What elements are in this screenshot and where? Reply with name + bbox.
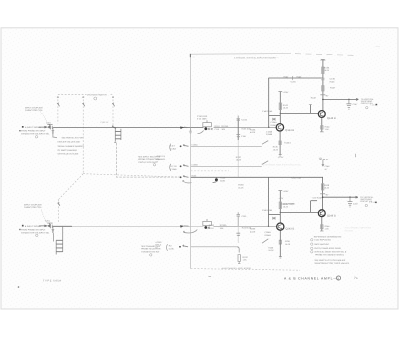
svg-text:CAPACITOR C201: CAPACITOR C201 <box>24 206 42 209</box>
svg-text:SEE PARTS LIST FOR: SEE PARTS LIST FOR <box>62 137 84 140</box>
svg-text:— —: — — <box>274 57 280 59</box>
svg-text:C136A: C136A <box>192 143 199 146</box>
svg-text:FROM PROBE OR INPUT: FROM PROBE OR INPUT <box>21 229 46 232</box>
svg-text:SEMICONDUCTOR TYPES VALUES: SEMICONDUCTOR TYPES VALUES <box>314 262 349 265</box>
svg-text:50% AMPL: 50% AMPL <box>156 158 167 161</box>
svg-text:16.2K: 16.2K <box>324 187 330 190</box>
svg-text:C240 R240: C240 R240 <box>262 209 273 212</box>
svg-text:OUTPUT AMPLIFIER DRIVE: OUTPUT AMPLIFIER DRIVE <box>314 247 341 250</box>
svg-text:A CHANNEL VERTICAL AMPLIFIER B: A CHANNEL VERTICAL AMPLIFIER BOARD <box>234 56 276 59</box>
svg-text:C146: C146 <box>330 78 336 81</box>
svg-text:R210: R210 <box>209 224 215 227</box>
svg-text:C134B: C134B <box>266 130 273 133</box>
svg-text:CAPACITOR C101: CAPACITOR C101 <box>25 109 43 112</box>
svg-text:R138: R138 <box>238 184 244 187</box>
svg-text:VOLTS/DIV SWITCH: VOLTS/DIV SWITCH <box>87 93 107 96</box>
svg-text:R110: R110 <box>215 125 221 128</box>
svg-text:Q148 B: Q148 B <box>327 117 336 120</box>
svg-text:REFERENCE DESIGNATION: REFERENCE DESIGNATION <box>314 236 342 239</box>
svg-text:+12V R248: +12V R248 <box>312 197 323 200</box>
svg-text:EARLIER VALUES AND: EARLIER VALUES AND <box>58 141 81 144</box>
svg-text:R136: R136 <box>220 177 226 180</box>
svg-text:A & B CHANNEL AMPL BOARD: A & B CHANNEL AMPL BOARD <box>222 267 252 270</box>
svg-text:16.2K: 16.2K <box>285 243 291 246</box>
svg-text:SEE CHANNEL B &: SEE CHANNEL B & <box>141 245 160 248</box>
svg-text:R133A: R133A <box>222 125 229 128</box>
svg-text:R134B: R134B <box>266 133 273 136</box>
svg-text:R147: R147 <box>330 87 336 90</box>
svg-text:WITH BLUE OUTLINE: WITH BLUE OUTLINE <box>58 153 80 156</box>
svg-text:R136 A: R136 A <box>284 142 291 145</box>
svg-text:Q248 B: Q248 B <box>327 214 336 217</box>
svg-text:CONNECTOR VIA INPUT SEL: CONNECTOR VIA INPUT SEL <box>21 232 50 235</box>
svg-text:1.5K: 1.5K <box>325 227 330 230</box>
svg-text:CIRCUIT FOR SW: CIRCUIT FOR SW <box>138 161 155 164</box>
svg-text:A B CHANNEL AMPLIFIER CIRCUIT: A B CHANNEL AMPLIFIER CIRCUIT BD <box>261 164 301 167</box>
svg-text:A B CHANNEL AMPLIFIER: A B CHANNEL AMPLIFIER <box>345 227 372 230</box>
svg-text:Q243 B: Q243 B <box>285 228 294 231</box>
svg-text:4.02K: 4.02K <box>250 230 256 233</box>
svg-text:R141: R141 <box>283 104 289 107</box>
svg-text:0.5-2: 0.5-2 <box>170 145 176 148</box>
svg-text:FROM PROBE OR INPUT: FROM PROBE OR INPUT <box>21 130 46 133</box>
svg-text:A & B CHANNEL AMPL—: A & B CHANNEL AMPL— <box>284 277 337 281</box>
svg-text:R149: R149 <box>324 67 330 70</box>
svg-text:4.7-34: 4.7-34 <box>170 165 177 168</box>
svg-text:16.2K: 16.2K <box>283 206 289 209</box>
svg-text:16.2K: 16.2K <box>238 186 244 189</box>
svg-text:+12V: +12V <box>279 197 284 200</box>
svg-text:C136A: C136A <box>170 148 177 151</box>
svg-text:C141 REPLACED: C141 REPLACED <box>314 239 331 242</box>
svg-text:GATE AMOUNT: GATE AMOUNT <box>314 243 330 246</box>
svg-text:C134A: C134A <box>271 121 278 124</box>
svg-text:VERTICAL MODE SWITCH SEL &: VERTICAL MODE SWITCH SEL & <box>314 251 347 254</box>
svg-text:INPUT COUPLING: INPUT COUPLING <box>25 106 43 109</box>
svg-text:R135: R135 <box>250 128 256 131</box>
svg-text:1.5K: 1.5K <box>325 128 330 131</box>
svg-text:4.02K: 4.02K <box>250 131 256 134</box>
svg-text:R245B: R245B <box>289 202 296 205</box>
svg-text:+125V: +125V <box>283 190 290 193</box>
svg-text:PROBE SELECTOR: PROBE SELECTOR <box>141 248 161 251</box>
svg-text:C133: C133 <box>242 119 248 122</box>
svg-text:R134A: R134A <box>271 124 278 127</box>
svg-text:C136B: C136B <box>192 163 199 166</box>
svg-text:B578034: B578034 <box>345 229 355 232</box>
svg-text:SEE PARTS LIST FOR EARLIER: SEE PARTS LIST FOR EARLIER <box>314 259 345 262</box>
svg-text:1.5K: 1.5K <box>243 259 248 262</box>
svg-text:R245 R246: R245 R246 <box>291 177 302 180</box>
svg-text:+125V: +125V <box>283 91 290 94</box>
svg-text:A INPUT SIGNAL: A INPUT SIGNAL <box>25 126 42 129</box>
svg-text:OF PARTS MARKED: OF PARTS MARKED <box>58 149 78 152</box>
svg-text:16.2K: 16.2K <box>283 107 289 110</box>
svg-text:3-12 100K: 3-12 100K <box>197 117 207 120</box>
svg-text:+GRID: +GRID <box>155 241 162 244</box>
svg-text:C234B: C234B <box>265 231 272 234</box>
svg-text:INPUT COUPLING: INPUT COUPLING <box>24 203 42 206</box>
svg-text:R249: R249 <box>324 184 330 187</box>
svg-text:16.2K: 16.2K <box>236 159 242 162</box>
svg-text:16.2K: 16.2K <box>324 69 330 72</box>
svg-text:+GRID CA: +GRID CA <box>156 155 166 158</box>
svg-text:C110 R110: C110 R110 <box>197 115 208 118</box>
svg-text:+125V: +125V <box>320 59 327 62</box>
svg-text:C103 1X: C103 1X <box>101 121 109 124</box>
svg-text:GAIN: GAIN <box>220 179 225 182</box>
svg-text:R235: R235 <box>250 228 256 231</box>
svg-text:CONNECTION SW: CONNECTION SW <box>141 250 159 253</box>
svg-text:PROBE TO CONNECTIONS &: PROBE TO CONNECTIONS & <box>315 253 344 256</box>
svg-text:+125V: +125V <box>290 80 297 83</box>
svg-text:7s: 7s <box>354 276 358 280</box>
svg-text:SERIAL NUMBER RANGES: SERIAL NUMBER RANGES <box>58 145 85 148</box>
svg-text:R242: R242 <box>243 256 249 259</box>
svg-text:C140 R140: C140 R140 <box>262 110 273 113</box>
svg-text:C136B: C136B <box>170 168 177 171</box>
svg-text:R137: R137 <box>236 156 242 159</box>
svg-text:CONNECTOR VIA INPUT SEL: CONNECTOR VIA INPUT SEL <box>21 133 50 136</box>
svg-text:B INPUT SIGNAL: B INPUT SIGNAL <box>25 225 42 228</box>
svg-text:-12.2V: -12.2V <box>278 156 285 159</box>
svg-text:Q143 B: Q143 B <box>285 129 294 132</box>
svg-text:·—·: ·—· <box>192 57 196 59</box>
svg-text:R233A: R233A <box>220 224 227 227</box>
svg-text:TYPE 545A: TYPE 545A <box>43 280 62 283</box>
svg-text:16.2K: 16.2K <box>273 148 279 151</box>
svg-text:R234B: R234B <box>265 234 272 237</box>
svg-text:16.2K: 16.2K <box>268 249 274 252</box>
